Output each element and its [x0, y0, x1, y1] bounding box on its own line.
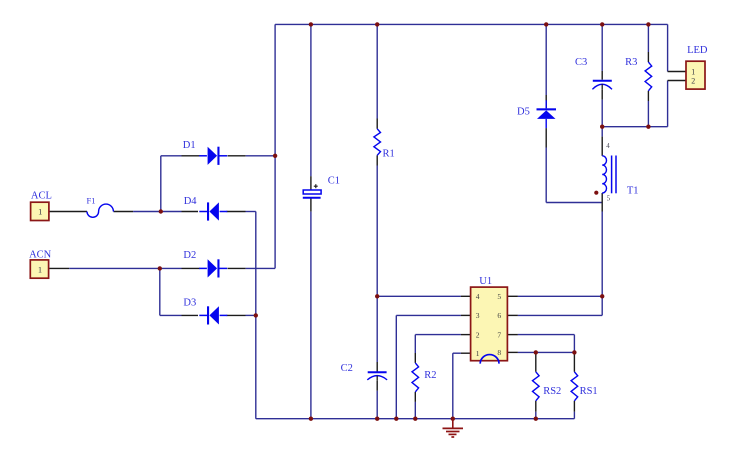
svg-text:C3: C3 — [575, 57, 587, 68]
svg-text:D3: D3 — [183, 298, 196, 309]
svg-text:5: 5 — [497, 292, 501, 301]
svg-text:D5: D5 — [517, 106, 530, 117]
svg-text:2: 2 — [691, 76, 695, 85]
svg-text:4: 4 — [606, 142, 610, 150]
svg-text:T1: T1 — [627, 186, 639, 197]
svg-text:RS2: RS2 — [543, 386, 561, 397]
svg-text:C2: C2 — [341, 363, 353, 374]
svg-text:F1: F1 — [87, 196, 96, 206]
svg-text:RS1: RS1 — [580, 386, 598, 397]
svg-text:1: 1 — [38, 207, 42, 217]
svg-text:1: 1 — [691, 67, 695, 76]
svg-text:2: 2 — [476, 330, 480, 339]
svg-text:4: 4 — [476, 292, 480, 301]
svg-text:3: 3 — [476, 311, 480, 320]
svg-text:ACN: ACN — [29, 249, 52, 260]
svg-text:C1: C1 — [328, 175, 340, 186]
svg-text:D4: D4 — [184, 196, 198, 207]
svg-text:R1: R1 — [383, 148, 395, 159]
svg-text:8: 8 — [497, 348, 501, 357]
svg-text:D2: D2 — [183, 250, 196, 261]
svg-text:U1: U1 — [479, 276, 492, 287]
svg-text:ACL: ACL — [31, 191, 52, 202]
svg-text:R3: R3 — [625, 57, 637, 68]
svg-text:R2: R2 — [424, 370, 436, 381]
svg-text:1: 1 — [476, 349, 480, 358]
svg-text:D1: D1 — [183, 140, 196, 151]
svg-text:6: 6 — [497, 311, 501, 320]
svg-text:7: 7 — [497, 330, 501, 339]
svg-text:5: 5 — [607, 195, 611, 203]
svg-text:LED: LED — [687, 45, 708, 56]
svg-text:1: 1 — [38, 264, 42, 274]
